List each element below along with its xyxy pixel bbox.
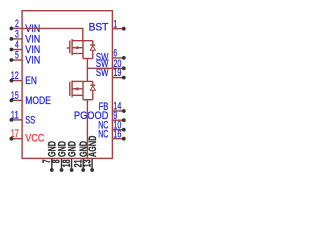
svg-text:AGND: AGND <box>87 136 99 157</box>
pin 8 GND (bottom) <box>51 141 69 172</box>
svg-text:13: 13 <box>81 159 93 167</box>
wire Q2 source junction <box>83 99 93 101</box>
pin 16 NC (right) <box>98 128 126 140</box>
pin 21 GND (bottom) <box>72 141 90 172</box>
pin 13 AGND (bottom) <box>81 136 99 172</box>
pin 17 VCC (left) <box>10 128 45 145</box>
svg-text:1: 1 <box>113 18 117 30</box>
svg-text:VCC: VCC <box>25 133 44 145</box>
pin 2 VIN (left) <box>10 18 41 35</box>
diode D2 (Q2 body diode) <box>83 81 95 99</box>
svg-text:SS: SS <box>25 114 35 126</box>
pin 5 VIN (left) <box>10 50 41 67</box>
pin 7 GND (bottom) <box>41 141 59 172</box>
pin 3 VIN (left) <box>10 28 41 45</box>
pin 6 SW (right) <box>96 48 126 64</box>
pin 19 SW (right) <box>96 67 126 79</box>
pin 4 VIN (left) <box>10 39 41 56</box>
diode D1 (Q1 body diode) <box>83 41 95 59</box>
pin 18 GND (bottom) <box>61 141 79 172</box>
svg-text:GND: GND <box>66 141 78 157</box>
svg-text:18: 18 <box>61 159 73 167</box>
svg-text:16: 16 <box>113 128 121 140</box>
pin 15 MODE (left) <box>10 90 51 107</box>
pin 20 SW (right) <box>96 58 126 70</box>
pin 10 NC (right) <box>98 119 126 131</box>
svg-text:NC: NC <box>98 129 108 141</box>
pin 14 FB (right) <box>99 101 126 113</box>
wire SW node junction <box>83 58 93 60</box>
svg-text:BST: BST <box>89 22 109 34</box>
svg-text:19: 19 <box>113 67 121 79</box>
wire Q2 source to GND pins <box>86 100 88 159</box>
svg-text:MODE: MODE <box>25 95 51 107</box>
transistor Q1 (high-side NMOS) <box>67 39 83 59</box>
svg-text:EN: EN <box>25 75 37 87</box>
wire VIN to Q1 drain <box>22 28 83 40</box>
pin 1 BST (right) <box>89 18 126 33</box>
pin 11 SS (left) <box>10 109 36 126</box>
transistor Q2 (low-side NMOS) <box>70 81 83 100</box>
pin 9 PGOOD (right) <box>74 110 126 122</box>
IC body U1 outline <box>22 11 112 159</box>
svg-text:12: 12 <box>11 70 19 82</box>
svg-text:17: 17 <box>11 128 19 140</box>
svg-text:5: 5 <box>15 50 19 62</box>
pin 12 EN (left) <box>10 70 37 87</box>
wire SW node vertical <box>86 59 88 82</box>
svg-text:11: 11 <box>11 109 19 121</box>
wire SW node to pin 20 <box>87 67 112 69</box>
svg-text:15: 15 <box>11 90 19 102</box>
svg-text:VIN: VIN <box>25 55 40 67</box>
